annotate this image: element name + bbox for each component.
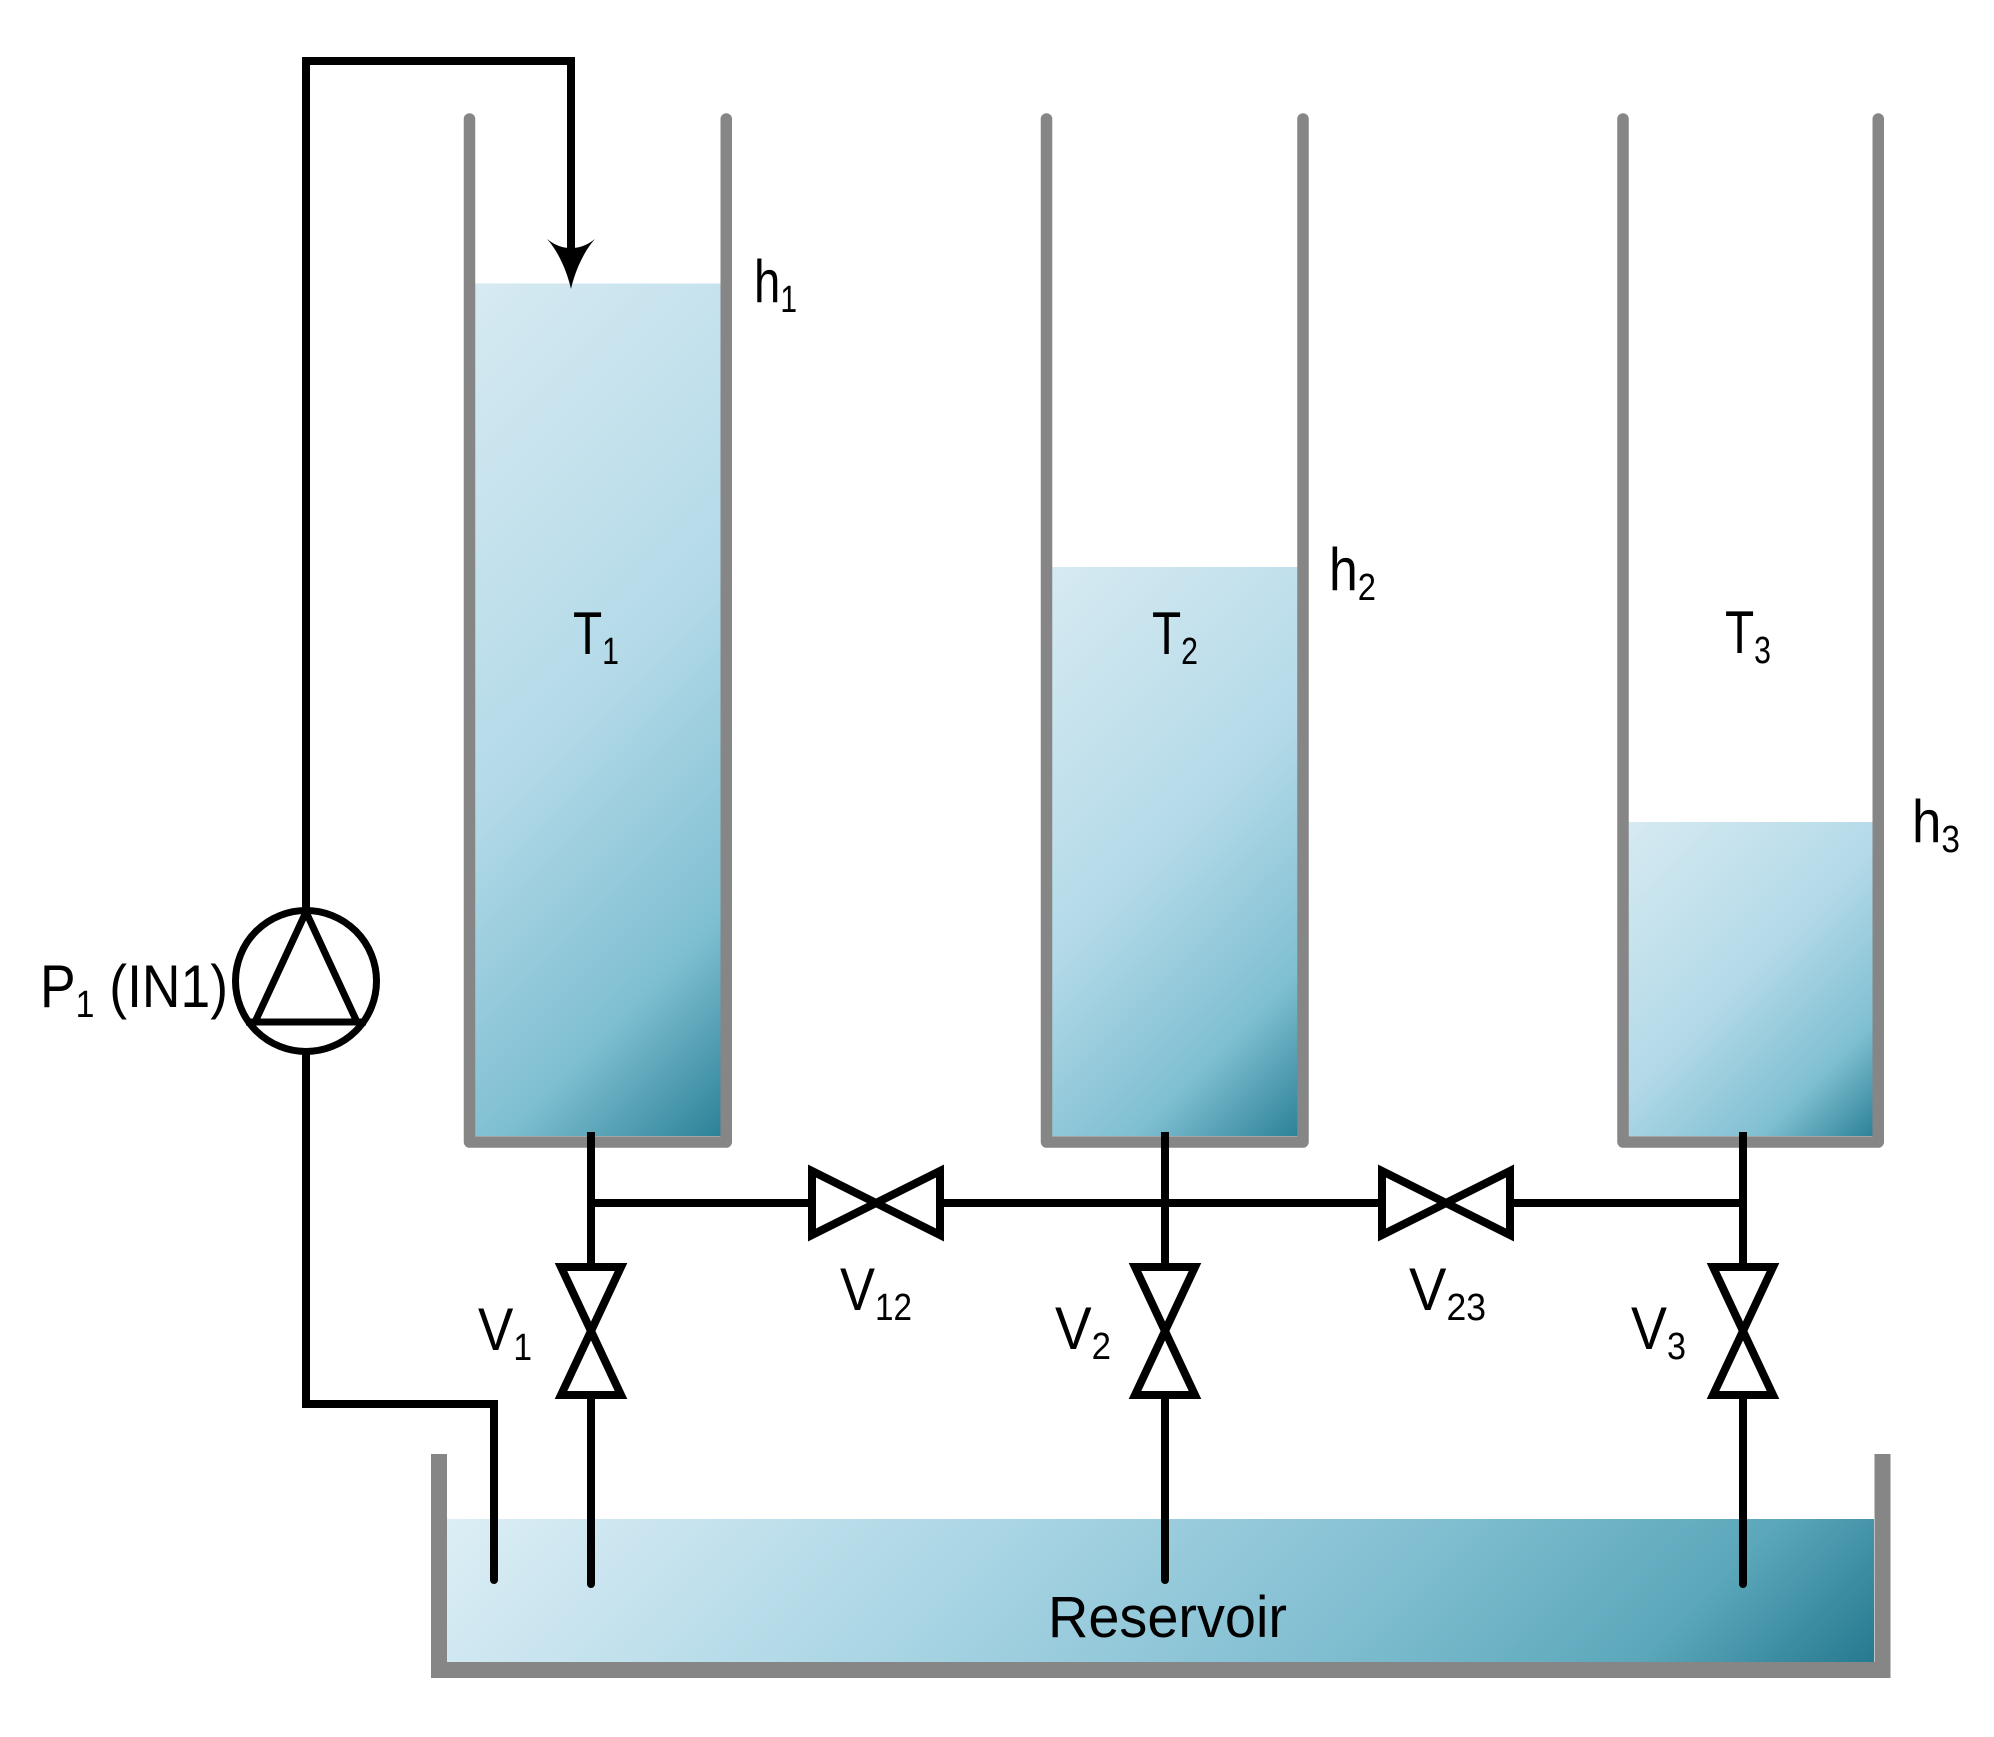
tank T3 walls <box>1623 119 1878 1142</box>
svg-text:V3: V3 <box>1631 1295 1686 1368</box>
valve V1 <box>561 1267 621 1395</box>
wire manifold horizontal <box>591 1199 1743 1207</box>
svg-text:h1: h1 <box>754 248 797 321</box>
valve V12 <box>812 1171 940 1235</box>
wire tank T1 drain to manifold <box>587 1132 595 1265</box>
tank T1 water <box>475 284 721 1137</box>
valve V2 <box>1135 1267 1195 1395</box>
reservoir walls <box>439 1454 1883 1670</box>
wire valve V2 outlet into reservoir <box>1161 1396 1169 1580</box>
tank T2 water <box>1052 567 1298 1136</box>
wire valve V3 outlet into reservoir <box>1739 1396 1747 1584</box>
reservoir water <box>447 1519 1874 1662</box>
svg-text:V1: V1 <box>478 1296 532 1369</box>
pump P1 triangle <box>246 912 366 1022</box>
svg-text:V12: V12 <box>840 1256 912 1329</box>
tank T1 walls <box>470 119 727 1142</box>
pump P1 circle <box>236 911 377 1052</box>
svg-text:V2: V2 <box>1055 1295 1111 1368</box>
wire pump outlet up and over into tank T1 <box>306 61 571 910</box>
svg-text:h2: h2 <box>1329 536 1376 609</box>
tank T2 walls <box>1047 119 1304 1142</box>
svg-text:V23: V23 <box>1409 1256 1486 1329</box>
wire tank T3 drain to manifold <box>1739 1132 1747 1265</box>
valve V3 <box>1713 1267 1773 1395</box>
valve V23 <box>1382 1171 1510 1235</box>
wire pump inlet down from pump to reservoir <box>306 1052 494 1580</box>
svg-text:h3: h3 <box>1912 788 1960 861</box>
wire tank T2 drain to manifold <box>1161 1132 1169 1265</box>
svg-text:P1 (IN1): P1 (IN1) <box>40 953 228 1026</box>
wire valve V1 outlet into reservoir <box>587 1396 595 1584</box>
svg-text:Reservoir: Reservoir <box>1048 1585 1287 1650</box>
tank T3 water <box>1629 822 1873 1136</box>
svg-text:T3: T3 <box>1725 599 1771 672</box>
arrowhead into tank T1 <box>547 239 595 289</box>
